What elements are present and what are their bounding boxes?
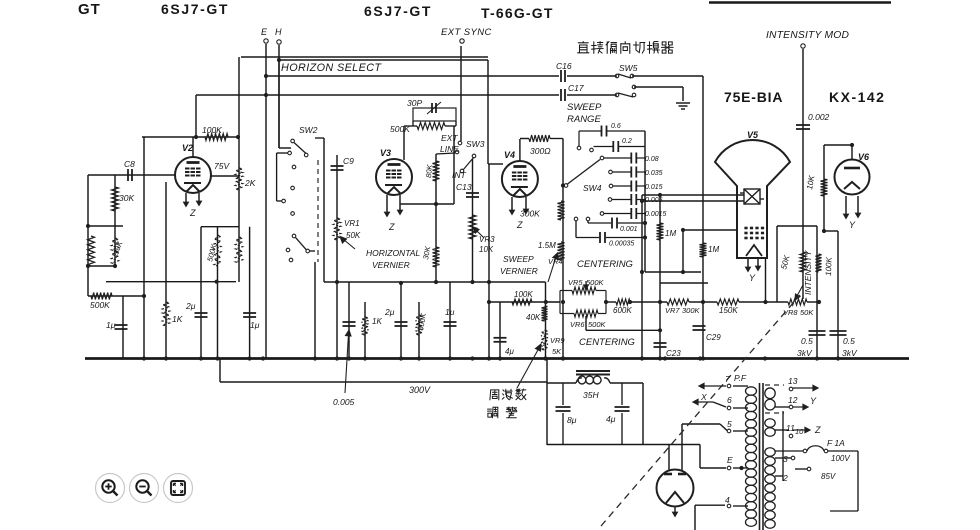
- capacitor 4u filter: [615, 407, 630, 411]
- svg-text:11: 11: [786, 423, 795, 433]
- SW4 arm: [568, 160, 601, 185]
- potentiometer VR9 5K (dashed): [541, 330, 548, 350]
- svg-text:500K: 500K: [90, 300, 110, 310]
- wire V6 plate drop: [851, 145, 853, 159]
- resistor 1K cathode (dashed): [163, 302, 170, 326]
- svg-text:E: E: [261, 27, 268, 37]
- contact INT: [460, 169, 464, 173]
- CRT grid dots: [744, 227, 764, 240]
- wire EXT SYNC drop: [460, 46, 462, 141]
- wire filter box bottom: [547, 444, 700, 446]
- SW3 arm: [463, 157, 474, 170]
- VR3 wiper arrow: [473, 227, 484, 238]
- wire crt plate drop: [641, 195, 643, 359]
- tube V6: [835, 160, 870, 195]
- junction: [822, 229, 826, 233]
- viewer button zoom-out: [130, 474, 159, 503]
- svg-text:3kV: 3kV: [842, 348, 858, 358]
- SW2 contact 3: [304, 153, 308, 157]
- svg-text:7: 7: [725, 374, 730, 384]
- wire crt g1 drop: [776, 226, 778, 302]
- capacitor sweep 0.035: [631, 167, 636, 178]
- wire 300V rail: [220, 381, 547, 383]
- junction: [434, 202, 438, 206]
- svg-text:75E-BIA: 75E-BIA: [724, 89, 783, 105]
- svg-text:C8: C8: [124, 159, 135, 169]
- svg-text:C29: C29: [706, 333, 721, 342]
- junction: [663, 356, 667, 360]
- wire 500K column: [217, 227, 219, 359]
- svg-text:4: 4: [725, 495, 730, 505]
- wire hv cap1 column: [816, 226, 818, 359]
- svg-text:600K: 600K: [613, 306, 632, 315]
- junction: [113, 264, 117, 268]
- svg-text:85V: 85V: [821, 472, 836, 481]
- junction: [86, 224, 90, 228]
- resistor coupling (dashed): [236, 237, 243, 263]
- capacitor C9: [331, 166, 344, 170]
- capacitor C23: [654, 343, 667, 347]
- CRT deflection plates box: [740, 189, 764, 204]
- junction: [543, 356, 547, 360]
- wire dashed tap a: [765, 384, 784, 386]
- svg-text:30P: 30P: [407, 98, 422, 108]
- wire SW2 link b: [276, 153, 278, 201]
- svg-text:Y: Y: [749, 273, 756, 283]
- CRT cathode: [746, 245, 762, 256]
- junction E-coil: [739, 466, 743, 470]
- svg-text:0.00035: 0.00035: [609, 241, 634, 248]
- wire 0.001 stub: [587, 221, 589, 223]
- svg-text:300K: 300K: [682, 306, 701, 315]
- pin V6 cathode b: [856, 196, 860, 217]
- wire sweep row 0.015 left: [613, 185, 631, 187]
- wire X to 6: [713, 402, 726, 407]
- SW2 contact 1: [291, 139, 295, 143]
- svg-text:0.002: 0.002: [808, 112, 830, 122]
- wire centering e: [807, 301, 819, 303]
- pin V4 cathode b: [524, 197, 528, 213]
- svg-text:100K: 100K: [514, 290, 533, 299]
- wire 1M/C23 column: [659, 195, 661, 359]
- wire SW2 link a: [277, 152, 288, 154]
- svg-text:CENTERING: CENTERING: [579, 337, 635, 348]
- junction: [417, 356, 421, 360]
- svg-text:300Ω: 300Ω: [530, 146, 551, 156]
- wire LINE to 80K: [436, 153, 455, 154]
- wire SW2 arm out a: [310, 250, 315, 252]
- junction: [448, 356, 452, 360]
- pin V7 cathode: [673, 506, 677, 516]
- wire dashed tap b: [765, 412, 784, 414]
- junction: [701, 356, 705, 360]
- resistor left feedback: [88, 236, 95, 266]
- wire sweep row 0.2 left: [594, 146, 613, 148]
- resistor 80K: [433, 161, 440, 181]
- junction: [277, 58, 281, 62]
- wire tap2: [775, 475, 783, 477]
- arrow X output b: [693, 399, 713, 404]
- svg-text:INT: INT: [452, 170, 467, 180]
- wire plate feed drop: [195, 95, 197, 137]
- svg-text:HORIZONTAL: HORIZONTAL: [366, 248, 420, 258]
- wire SW2 top link: [315, 137, 324, 139]
- SW5 contact b3: [632, 85, 636, 89]
- VR4 wiper arrow: [548, 253, 559, 282]
- transformer primary winding: [746, 387, 757, 527]
- wire 1u-2 column: [449, 282, 451, 359]
- wire trimmer right leg: [455, 121, 457, 126]
- wire right drop: [857, 451, 859, 511]
- wire 4u column: [499, 302, 501, 359]
- capacitor C17: [561, 89, 565, 101]
- capacitor 4u freq: [494, 338, 507, 342]
- SW4 contact 0.08: [600, 156, 604, 160]
- resistor 150K: [717, 299, 739, 305]
- wire ground stub: [682, 87, 684, 101]
- wire vernier drop: [488, 164, 490, 359]
- wire sweep collector: [644, 131, 646, 272]
- contact 7: [727, 384, 731, 388]
- capacitor 0.002: [796, 125, 810, 129]
- wire pin5: [733, 430, 748, 432]
- wire centering a: [606, 301, 616, 303]
- junction: [399, 356, 403, 360]
- capacitor 30P: [432, 103, 436, 113]
- tube V2: [175, 157, 211, 193]
- wire centering d: [739, 301, 788, 303]
- wire 2u-2 column: [400, 283, 402, 359]
- wire SW2 arm drop: [323, 138, 325, 282]
- svg-text:2K: 2K: [244, 178, 256, 188]
- svg-text:VR7: VR7: [665, 306, 680, 315]
- svg-text:4μ: 4μ: [606, 414, 616, 424]
- svg-text:Y: Y: [849, 220, 856, 230]
- junction: [264, 74, 268, 78]
- wire centering c: [689, 301, 717, 303]
- wire hv cap2 column: [837, 231, 839, 359]
- junction: [164, 356, 168, 360]
- junction: [335, 356, 339, 360]
- junction: [487, 300, 491, 304]
- wire fuse left: [775, 450, 803, 452]
- svg-text:CENTERING: CENTERING: [577, 259, 633, 270]
- transformer core: [760, 383, 764, 530]
- junction: [399, 281, 403, 285]
- resistor 500K feedback: [91, 293, 112, 300]
- junction: [836, 356, 840, 360]
- svg-text:Z: Z: [388, 222, 395, 232]
- junction: [763, 356, 767, 360]
- capacitor 0.001: [612, 218, 617, 229]
- wire CRT plate upper: [642, 194, 744, 196]
- resistor 100K bleeder: [816, 254, 822, 272]
- junction: [628, 300, 632, 304]
- wire SW5 to right corner: [632, 75, 703, 77]
- resistor 500K screen (dashed): [214, 235, 221, 266]
- svg-text:V3: V3: [380, 148, 391, 158]
- SW2 arm upper: [294, 143, 306, 154]
- junction: [487, 356, 491, 360]
- arrow 13: [793, 385, 818, 390]
- svg-text:0.001: 0.001: [620, 226, 638, 233]
- svg-text:300V: 300V: [409, 385, 431, 395]
- svg-text:SWEEP: SWEEP: [503, 254, 534, 264]
- viewer button fullscreen: [164, 474, 193, 503]
- pin CRT heater b: [756, 259, 760, 270]
- svg-text:8μ: 8μ: [567, 415, 577, 425]
- junction: [643, 235, 647, 239]
- svg-text:100K: 100K: [202, 125, 222, 135]
- junction: [236, 135, 240, 139]
- contact 4: [727, 504, 731, 508]
- wire 500K right: [445, 125, 456, 127]
- svg-text:50K: 50K: [346, 231, 361, 240]
- SW4 contact 0.005: [608, 198, 612, 202]
- wire V4 plate: [519, 139, 521, 161]
- svg-text:Z: Z: [814, 425, 821, 435]
- wire C17 to SW5b: [567, 94, 617, 96]
- arrow 12 Y: [793, 404, 808, 409]
- junction 40K: [544, 300, 548, 304]
- wire 0.005 column: [348, 282, 350, 359]
- wire pin7: [733, 385, 748, 387]
- terminal EXT SYNC: [460, 39, 464, 43]
- pin CRT heater a: [746, 259, 750, 271]
- svg-text:5: 5: [727, 419, 732, 429]
- junction: [470, 356, 474, 360]
- svg-text:P.F: P.F: [734, 373, 747, 383]
- wire node left lower: [88, 265, 115, 267]
- svg-text:1M: 1M: [665, 229, 676, 238]
- svg-text:C16: C16: [556, 61, 572, 71]
- pin V2 cathode b: [197, 193, 201, 205]
- wire horizon box right: [487, 60, 489, 164]
- SW2 contact 7: [291, 212, 295, 216]
- arrow 11 Z: [793, 427, 810, 432]
- tube V7 rectifier: [657, 470, 694, 507]
- resistor 1K-2 (dashed): [362, 317, 369, 335]
- SW5 arm a: [618, 74, 631, 78]
- trimmer arrow: [427, 102, 441, 114]
- wire coupling box top: [201, 226, 239, 228]
- junction: [248, 356, 252, 360]
- svg-text:300K: 300K: [520, 209, 540, 219]
- svg-text:150K: 150K: [719, 306, 738, 315]
- wire tap12: [775, 406, 789, 408]
- wire 500K left: [404, 125, 417, 127]
- wire crt cathode drop: [765, 258, 767, 302]
- wire E drop: [265, 44, 267, 359]
- freq adjust arrow: [517, 344, 541, 388]
- junction: [658, 300, 662, 304]
- svg-text:Y: Y: [810, 396, 817, 406]
- svg-text:1μ: 1μ: [106, 320, 116, 330]
- wire C16 to SW5: [567, 75, 617, 77]
- wire sweep row 0.005 left: [612, 199, 631, 201]
- potentiometer VR7 300K: [667, 299, 689, 305]
- wire main ground bus: [85, 357, 909, 360]
- junction: [643, 221, 647, 225]
- capacitor 8u: [556, 407, 571, 411]
- wire E link: [700, 467, 726, 469]
- svg-text:1K: 1K: [372, 317, 382, 326]
- svg-text:Z: Z: [516, 220, 523, 230]
- capacitor 2u-2: [395, 322, 408, 326]
- resistor 100K freq: [512, 299, 532, 305]
- wire rect link diag: [720, 424, 727, 431]
- wire 500K feedback: [88, 295, 144, 297]
- wire rect plate a: [668, 445, 670, 472]
- wire filter box right: [642, 383, 644, 445]
- terminal E: [264, 39, 268, 43]
- svg-text:0.2: 0.2: [622, 138, 632, 145]
- capacitor sweep 0.6: [602, 126, 607, 137]
- wire C13/VR3 column: [472, 159, 474, 282]
- svg-text:H: H: [275, 27, 282, 37]
- junction: [199, 356, 203, 360]
- wire V2 grid input: [88, 174, 176, 176]
- svg-text:0.0015: 0.0015: [645, 211, 667, 218]
- svg-text:VR9: VR9: [550, 336, 565, 345]
- wire mid rail left: [106, 281, 236, 283]
- resistor 40K: [542, 306, 548, 321]
- contact 11: [789, 434, 793, 438]
- svg-text:KX-142: KX-142: [829, 89, 885, 105]
- svg-text:VR1: VR1: [344, 219, 360, 228]
- svg-text:EXT SYNC: EXT SYNC: [441, 27, 492, 38]
- wire filter box left: [546, 359, 548, 446]
- svg-text:0.005: 0.005: [333, 397, 355, 407]
- resistor 500K grid: [417, 123, 445, 130]
- capacitor C29: [693, 326, 706, 330]
- SW2 contact 8: [292, 234, 296, 238]
- wire pin4 drop: [694, 505, 696, 530]
- resistor 300ohm: [529, 135, 550, 142]
- arrow X output a: [699, 383, 726, 388]
- wire sweep row 0.6 left: [579, 130, 601, 132]
- capacitor 1u-2: [444, 322, 457, 326]
- pin V6 cathode a: [844, 196, 848, 218]
- resistor 1M: [657, 223, 664, 240]
- 0.005 pointer arrow: [345, 330, 351, 393]
- wire E drop: [699, 445, 701, 469]
- wire sweep row 0.035 right: [637, 171, 645, 173]
- wire 600K column: [418, 302, 420, 359]
- svg-text:VR5: VR5: [568, 278, 583, 287]
- potentiometer VR5: [572, 287, 596, 294]
- SW5 contact b2: [632, 93, 636, 97]
- junction: [215, 280, 219, 284]
- potentiometer VR8 50K: [788, 299, 807, 305]
- svg-text:V2: V2: [182, 143, 193, 153]
- wire SW2 out drop: [314, 262, 316, 359]
- resistor 10K: [821, 179, 828, 196]
- junction: [264, 93, 268, 97]
- resistor 100K (V2 plate): [205, 134, 228, 141]
- svg-text:100V: 100V: [831, 454, 850, 463]
- wire 300V drop: [219, 359, 221, 383]
- svg-text:SW4: SW4: [583, 183, 602, 193]
- SW4 contact 0.0015: [600, 212, 604, 216]
- wire sweep row 0.08 right: [637, 157, 645, 159]
- wire sweep row 0.2 right: [619, 146, 645, 148]
- wire V3 plate: [403, 126, 405, 160]
- SW4 contact 0.00035: [574, 217, 578, 221]
- label 周波数 (frequency): [490, 389, 526, 400]
- SW5 contact a2: [630, 74, 634, 78]
- wire H drop: [278, 45, 280, 148]
- wire 80K/30K column: [435, 154, 437, 282]
- wire sweep row 0.035 left: [613, 171, 631, 173]
- contact 6: [727, 406, 731, 410]
- svg-text:HORIZON SELECT: HORIZON SELECT: [281, 62, 382, 74]
- SW2 contact 6: [282, 199, 286, 203]
- wire bottom stub: [830, 510, 858, 512]
- wire 8u bottom: [562, 413, 564, 445]
- svg-text:2μ: 2μ: [185, 301, 196, 311]
- tube V3: [376, 159, 412, 195]
- contact 12: [789, 405, 793, 409]
- VR8 wiper arrow: [795, 285, 803, 300]
- SW5 arm b: [618, 93, 633, 97]
- wire mid rail right: [324, 281, 546, 283]
- junction: [561, 183, 565, 187]
- junction: [698, 356, 702, 360]
- junction: [142, 356, 146, 360]
- capacitor C8: [128, 169, 132, 181]
- junction: [640, 270, 644, 274]
- wire pinE: [733, 467, 748, 469]
- wire sweep row 0.6 stub: [578, 131, 580, 146]
- potentiometer VR1 (dashed): [334, 218, 341, 240]
- svg-text:10: 10: [795, 427, 804, 436]
- wire 100K rail: [142, 136, 238, 138]
- pin V2 cathode a: [184, 193, 188, 206]
- svg-text:C17: C17: [568, 83, 584, 93]
- wire 300ohm right: [550, 138, 563, 140]
- svg-text:12: 12: [788, 395, 798, 405]
- capacitor C13: [466, 193, 479, 197]
- wire 2K column: [238, 57, 240, 282]
- wire 4u top: [621, 383, 623, 405]
- wire choke left: [547, 382, 576, 384]
- svg-text:VR4: VR4: [548, 257, 563, 266]
- junction VR6-C23: [658, 328, 662, 332]
- capacitor 2u: [195, 313, 208, 317]
- SW3 pivot contact: [472, 154, 476, 158]
- contact 85V: [807, 467, 811, 471]
- svg-text:0.5: 0.5: [843, 336, 855, 346]
- SW4 contact 0.2: [590, 148, 594, 152]
- resistor 600K-2 (dashed): [416, 315, 423, 335]
- svg-text:GT: GT: [78, 1, 101, 18]
- svg-text:3: 3: [783, 454, 788, 464]
- svg-text:SW2: SW2: [299, 125, 318, 135]
- contact 5: [727, 429, 731, 433]
- wire H to SW2: [279, 147, 291, 149]
- junction: [763, 300, 767, 304]
- junction: [363, 356, 367, 360]
- SW2 contact 5: [291, 186, 295, 190]
- SW5 contact b1: [615, 93, 619, 97]
- wire 0.001 right: [618, 222, 645, 224]
- capacitor sweep 0.08: [631, 153, 636, 164]
- svg-text:E: E: [727, 455, 733, 465]
- svg-text:4μ: 4μ: [505, 347, 514, 356]
- wire V3 cathode link: [400, 203, 454, 205]
- pin V4 cathode a: [510, 197, 514, 214]
